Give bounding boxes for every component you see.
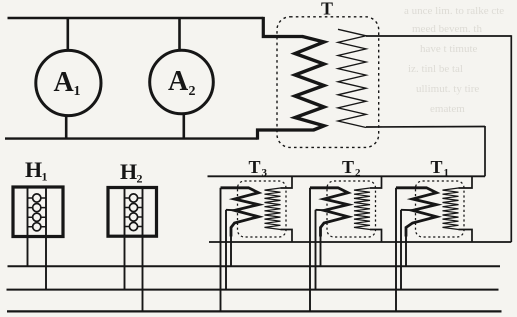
wire bus B (8, 265, 501, 267)
H2 element rung 4 (125, 226, 143, 228)
wire T1 secondary top connection from top bus (459, 176, 473, 188)
wire T2 primary top lead down to bus D (309, 188, 311, 312)
svg-text:1: 1 (74, 84, 81, 99)
H1 element rung 3 (28, 216, 47, 218)
transformer T2 dotted enclosure (327, 181, 376, 237)
wire ammeter A2 bottom stub (183, 114, 186, 139)
wire top line from left edge to transformer T primary top (8, 17, 264, 19)
wire bus C (7, 289, 499, 291)
H2 element rung 1 (125, 197, 143, 199)
transformer T3 primary winding (221, 188, 259, 237)
wire vertical joining secondary bottom lead to top distribution bus (484, 126, 486, 176)
wire bus A (secondary return bus) (209, 241, 511, 243)
svg-text:1: 1 (42, 170, 48, 184)
wire T1 primary tap lead down to bus C (400, 210, 402, 290)
wire H2 left lead down (124, 236, 126, 289)
wire T3 primary bottom lead down to bus B (230, 236, 232, 266)
H1 element bead 3 (33, 213, 41, 221)
H2 element bead 4 (129, 222, 137, 230)
H1 element rung 4 (28, 226, 47, 228)
transformer T2 secondary winding (354, 188, 370, 230)
wire step-down corner into T primary top lead (263, 17, 303, 37)
svg-text:T: T (431, 157, 443, 177)
transformer T1 primary winding (396, 188, 437, 237)
wire T2 secondary top connection from top bus (370, 176, 382, 188)
svg-text:1: 1 (444, 167, 450, 179)
transformer T3 secondary winding (265, 188, 281, 230)
wire top distribution bus over T3 T2 T1 (208, 175, 486, 177)
transformer T1 secondary winding (443, 188, 459, 230)
wire ammeter A1 bottom stub (65, 115, 68, 138)
H1 element bead 2 (33, 204, 41, 212)
transformer T primary winding (295, 37, 324, 131)
svg-text:A: A (168, 66, 189, 97)
svg-text:3: 3 (262, 167, 268, 179)
transformer T dotted enclosure (277, 17, 379, 148)
H2 element rung 3 (125, 216, 143, 218)
wire T1 secondary bottom connection to bus A (459, 230, 473, 243)
wire T3 primary top lead down to bus D (220, 188, 222, 312)
wire T2 primary bottom lead down to bus B (320, 236, 322, 266)
wire T1 primary top lead down to bus D (395, 188, 397, 312)
wire T2 secondary bottom connection to bus A (370, 230, 382, 243)
hot-wire instrument H2 enclosure (108, 188, 157, 237)
H1 element bead 4 (33, 223, 41, 231)
H2 element bead 1 (129, 194, 137, 202)
H1 element bead 1 (33, 194, 41, 202)
svg-text:ematem: ematem (430, 103, 465, 115)
svg-text:iz. tinl be tal: iz. tinl be tal (408, 63, 463, 75)
wire T3 primary tap lead down to bus C (225, 210, 227, 290)
transformer T1 dotted enclosure (416, 181, 465, 237)
H1 right rail (45, 187, 47, 237)
wire H2 right lead down (142, 236, 144, 311)
transformer T secondary winding (338, 29, 366, 127)
H2 left rail (124, 188, 126, 237)
svg-text:2: 2 (189, 84, 196, 99)
wire T1 primary tap lead (401, 209, 413, 211)
H2 element bead 3 (129, 213, 137, 221)
H2 right rail (142, 188, 144, 237)
wire T3 secondary top connection from top bus (281, 176, 293, 188)
svg-text:ullimut. ty tire: ullimut. ty tire (416, 83, 479, 95)
wire T secondary top to right edge (366, 35, 511, 37)
wire right-edge vertical down to bus A (510, 35, 512, 242)
H2 element bead 2 (129, 203, 137, 211)
svg-text:2: 2 (137, 172, 143, 186)
ammeter A1 (36, 50, 101, 115)
svg-text:T: T (249, 157, 261, 177)
wire T secondary bottom lead (366, 126, 485, 129)
wire H1 left lead down (27, 237, 29, 267)
H1 element rung 2 (28, 207, 47, 209)
wire H1 right lead down (45, 237, 47, 290)
wire bottom line of ammeter loop (5, 137, 258, 139)
svg-text:T: T (321, 0, 333, 19)
transformer T2 primary winding (310, 188, 348, 237)
svg-text:T: T (342, 157, 354, 177)
wire T3 primary tap lead (226, 209, 235, 211)
H2 element rung 2 (125, 207, 143, 209)
wire T2 primary tap lead down to bus C (315, 210, 317, 290)
wire T1 primary bottom lead down to bus B (405, 236, 407, 266)
wire ammeter A2 top stub (178, 18, 181, 50)
wire bus D (bottom line) (7, 310, 502, 312)
svg-text:H: H (25, 157, 42, 182)
svg-text:H: H (120, 159, 137, 184)
wire T2 primary tap lead (316, 209, 325, 211)
svg-text:have t timute: have t timute (420, 43, 478, 55)
svg-text:2: 2 (355, 167, 361, 179)
wire T3 secondary bottom connection to bus A (281, 230, 293, 243)
transformer T3 dotted enclosure (238, 181, 287, 237)
hot-wire instrument H1 enclosure (13, 187, 63, 237)
H1 left rail (27, 187, 29, 237)
svg-text:meed bevem. th: meed bevem. th (412, 23, 482, 35)
svg-text:A: A (54, 67, 75, 98)
ammeter A2 (150, 50, 214, 114)
wire ammeter A1 top stub (67, 18, 70, 51)
wire step-up corner into T primary bottom lead (258, 130, 315, 140)
svg-text:a unce lim. to ralke cte: a unce lim. to ralke cte (404, 5, 504, 17)
H1 element rung 1 (28, 197, 47, 199)
